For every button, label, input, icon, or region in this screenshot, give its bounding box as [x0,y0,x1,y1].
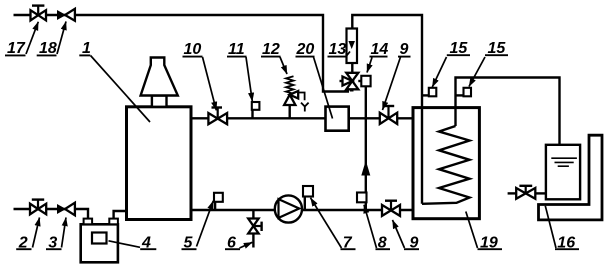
svg-text:14: 14 [371,41,389,58]
svg-text:9: 9 [400,41,409,58]
svg-text:11: 11 [228,41,245,58]
svg-text:10: 10 [184,41,202,58]
svg-text:13: 13 [329,41,347,58]
svg-text:12: 12 [262,41,280,58]
svg-text:20: 20 [296,41,315,58]
